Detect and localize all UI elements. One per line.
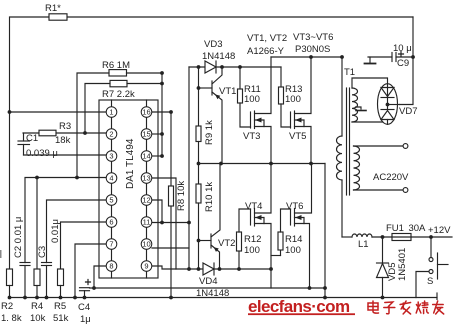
- svg-text:C3: C3: [37, 246, 48, 258]
- diode VD3 1N4148: [202, 39, 235, 73]
- transformer T1 feedback winding with center tap: [352, 78, 388, 124]
- wire pin4 line to C2 with R4 and R6 taps: [25, 176, 106, 263]
- wire pin7 line to ground bus: [75, 244, 106, 298]
- resistor R8 10k: [169, 181, 188, 211]
- capacitor C1 0.039u: [18, 133, 58, 159]
- svg-text:R7 2.2k: R7 2.2k: [102, 89, 135, 100]
- svg-text:2: 2: [109, 130, 113, 139]
- resistor R6 1M: [102, 60, 130, 76]
- IC pin circles 16-9: [141, 107, 152, 272]
- wire R6 right leg to node column: [127, 71, 164, 75]
- wire top Vcc rail and left rail: [8, 17, 413, 269]
- svg-text:R8 10k: R8 10k: [176, 181, 187, 211]
- label VT1 VT2 type A1266-Y: [247, 33, 287, 57]
- resistor R4 10k: [30, 178, 46, 325]
- svg-text:15: 15: [142, 130, 150, 139]
- resistor R14 100: [271, 209, 302, 256]
- wire mid bus y163.5: [199, 162, 326, 166]
- capacitor C9 10u polarized: [392, 43, 413, 69]
- wire pin10 line to drive column: [152, 247, 189, 249]
- resistor R1: [45, 3, 67, 20]
- svg-text:VD3: VD3: [204, 39, 222, 50]
- svg-text:L1: L1: [358, 239, 369, 250]
- svg-text:100: 100: [244, 94, 260, 105]
- wire pin5 line to C3: [47, 200, 107, 263]
- IC DA1 TL494 body: [99, 100, 158, 278]
- wire pin6 line to R5: [61, 222, 107, 269]
- resistor R7 2.2k: [102, 80, 135, 100]
- MOSFET VT4: [245, 164, 271, 289]
- svg-text:VT4: VT4: [245, 201, 262, 212]
- svg-text:100: 100: [244, 245, 260, 256]
- transistor VT2: [199, 164, 236, 270]
- svg-text:P30N0S: P30N0S: [295, 44, 330, 55]
- svg-text:R2: R2: [1, 301, 13, 312]
- svg-text:R1*: R1*: [45, 3, 61, 14]
- svg-text:VT1: VT1: [219, 86, 236, 97]
- watermark chinese characters: [368, 301, 444, 314]
- svg-text:C4: C4: [78, 302, 90, 313]
- svg-text:4: 4: [109, 174, 113, 183]
- wire pin1 to left rail: [10, 111, 107, 113]
- svg-text:A1266-Y: A1266-Y: [247, 46, 285, 57]
- svg-text:51k: 51k: [53, 313, 69, 324]
- diode VD5 1N5401: [377, 237, 409, 298]
- svg-text:1. 8k: 1. 8k: [1, 313, 22, 324]
- svg-text:AC220V: AC220V: [373, 172, 409, 183]
- svg-text:S: S: [427, 276, 433, 287]
- svg-text:1μ: 1μ: [80, 314, 91, 325]
- switch S: [416, 237, 448, 298]
- svg-text:100: 100: [285, 245, 301, 256]
- svg-text:VT5: VT5: [289, 131, 306, 142]
- resistor R13 100: [279, 67, 303, 127]
- diode VD4 1N4148: [196, 263, 229, 299]
- svg-text:C9: C9: [397, 58, 409, 69]
- svg-text:3: 3: [109, 152, 113, 161]
- wire drive column x189 from VD3 line down to VD4 line: [187, 67, 191, 271]
- wire drain bus y57 to transformer: [271, 55, 344, 59]
- capacitor C2 0.01u: [13, 217, 30, 298]
- resistor R12 100: [237, 209, 262, 269]
- svg-text:9: 9: [144, 262, 148, 271]
- svg-text:16: 16: [142, 108, 150, 117]
- wire pin11 line to drive column: [152, 221, 191, 225]
- svg-text:1: 1: [109, 108, 113, 117]
- ground symbol near C9: [365, 57, 393, 64]
- wire pin13 lead down to pin9 line: [152, 178, 176, 269]
- wire mid bus drop x325 to ground bus: [324, 164, 326, 298]
- svg-text:14: 14: [142, 152, 150, 161]
- svg-text:10 μ: 10 μ: [393, 43, 412, 54]
- wire pin15 lead: [152, 133, 162, 135]
- svg-text:R4: R4: [31, 301, 43, 312]
- wire R8 column x171 pin16 to ground bus: [169, 112, 173, 299]
- transformer T1 primary lead from drain bus: [342, 57, 355, 136]
- svg-text:VT6: VT6: [286, 201, 303, 212]
- svg-text:0.01μ: 0.01μ: [50, 219, 61, 243]
- svg-text:R10 1k: R10 1k: [204, 182, 215, 212]
- MOSFET VT6: [286, 164, 312, 289]
- inductor L1: [352, 234, 372, 250]
- transformer T1 core: [347, 88, 350, 195]
- wire C4 top line to MOSFET source return: [90, 286, 327, 290]
- svg-text:R12: R12: [244, 234, 261, 245]
- svg-text:11: 11: [143, 218, 151, 227]
- svg-text:18k: 18k: [55, 135, 71, 146]
- svg-text:13: 13: [142, 174, 150, 183]
- svg-text:elecfans·com: elecfans·com: [248, 297, 350, 316]
- capacitor C3 0.01u: [37, 219, 61, 297]
- diode pair VD7: [378, 84, 418, 125]
- wire C1 bottom to pin3: [24, 154, 107, 156]
- resistor R10 1k: [196, 162, 215, 269]
- wire R7 right leg to node column: [127, 82, 164, 86]
- svg-text:1N4148: 1N4148: [196, 288, 229, 299]
- wire R6 left leg down to pin4 line: [77, 73, 109, 178]
- svg-text:12: 12: [142, 196, 150, 205]
- svg-text:VT3~VT6: VT3~VT6: [293, 32, 333, 43]
- svg-text:10k: 10k: [30, 313, 46, 324]
- svg-text:6: 6: [109, 218, 113, 227]
- svg-text:VT3: VT3: [243, 131, 260, 142]
- wire pin14 lead: [152, 155, 162, 157]
- svg-text:+12V: +12V: [428, 225, 451, 236]
- resistor R2 1.8k: [1, 269, 22, 324]
- svg-text:C1: C1: [26, 133, 38, 144]
- svg-text:R14: R14: [285, 234, 302, 245]
- svg-text:5: 5: [109, 196, 113, 205]
- resistor R11 100: [238, 67, 261, 127]
- label VT3-VT6 type P30N0S: [293, 32, 333, 55]
- transistor VT1: [199, 67, 237, 164]
- wire R7 left leg down to pin2 line: [85, 84, 110, 134]
- wire VD3 drive line y67: [189, 65, 281, 69]
- resistor R9 1k: [196, 67, 215, 164]
- wire pin12 jog down to pin11 line: [152, 200, 164, 224]
- transformer T1 secondary winding AC220V: [354, 144, 410, 193]
- wire right rail top to C9 node and VD7 center: [400, 17, 415, 105]
- watermark elecfans.com: [248, 297, 355, 316]
- svg-text:R9 1k: R9 1k: [204, 120, 215, 145]
- svg-text:R6 1M: R6 1M: [102, 60, 130, 71]
- svg-text:100: 100: [285, 94, 301, 105]
- svg-text:VT2: VT2: [218, 238, 235, 249]
- wire pin16 lead to R8 column: [152, 110, 173, 114]
- svg-text:VD7: VD7: [399, 106, 417, 117]
- wire pin8 line down to C4 node: [94, 266, 106, 288]
- wire pin2 line with R3: [23, 131, 106, 135]
- svg-text:C2 0.01 μ: C2 0.01 μ: [13, 217, 24, 258]
- svg-text:7: 7: [109, 240, 113, 249]
- wire ground bottom bus: [8, 293, 437, 300]
- svg-text:R3: R3: [59, 121, 71, 132]
- svg-text:1N4148: 1N4148: [202, 51, 235, 62]
- svg-text:0.039 μ: 0.039 μ: [26, 148, 58, 159]
- svg-text:T1: T1: [344, 67, 355, 78]
- IC pin circles 1-8: [106, 107, 117, 272]
- resistor R3 18k: [39, 121, 71, 146]
- svg-text:1N5401: 1N5401: [397, 248, 408, 281]
- wire pin9 line to VD4 drive line: [152, 266, 273, 271]
- MOSFET VT5: [289, 57, 311, 164]
- transformer T1 primary winding: [336, 136, 342, 237]
- svg-text:R5: R5: [54, 301, 66, 312]
- svg-text:VT1, VT2: VT1, VT2: [247, 33, 287, 44]
- svg-text:FU1 30A: FU1 30A: [386, 223, 426, 234]
- fuse FU1 30A: [386, 223, 426, 241]
- svg-text:VD4: VD4: [199, 276, 217, 287]
- svg-text:DA1 TL494: DA1 TL494: [125, 138, 136, 189]
- svg-text:10: 10: [142, 240, 150, 249]
- wire +12V feed line y237: [342, 225, 452, 239]
- edge artifact marks: [0, 250, 2, 258]
- wire node column x162 joining R6 R7 pin15 pin14: [160, 73, 164, 158]
- capacitor C4 1u polarized: [78, 280, 91, 325]
- MOSFET VT3: [243, 57, 271, 164]
- svg-text:8: 8: [109, 262, 113, 271]
- resistor R5 51k: [53, 269, 69, 324]
